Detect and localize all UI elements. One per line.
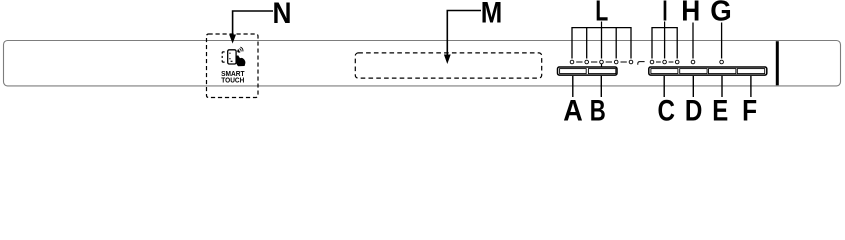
- arrowhead N: [229, 35, 236, 44]
- smart touch icon: screen marks: [229, 53, 230, 54]
- button bar C-F outer: [649, 67, 767, 75]
- connector circle3 to bar: [601, 64, 603, 67]
- LED circle H: [691, 60, 695, 64]
- pointer line C: [663, 76, 665, 97]
- dashed callout box N: [207, 34, 259, 98]
- LED circles group L: [570, 60, 574, 64]
- button F: [737, 69, 764, 74]
- svg-text:C: C: [658, 95, 676, 122]
- dashed callout box M: [355, 53, 541, 78]
- button A: [560, 69, 587, 74]
- G pointer: [721, 23, 723, 59]
- smart touch icon: hand: [236, 55, 245, 66]
- LED circles group I: [650, 60, 654, 64]
- panel divider bar (right end): [776, 41, 779, 85]
- smart touch icon: phone body: [228, 50, 236, 64]
- button D: [680, 69, 707, 74]
- button E: [709, 69, 736, 74]
- wire dashes between circles: [576, 61, 582, 63]
- svg-text:N: N: [273, 0, 292, 30]
- svg-text:B: B: [590, 95, 606, 122]
- svg-text:F: F: [742, 95, 757, 122]
- svg-text:TOUCH: TOUCH: [221, 75, 244, 84]
- leader line N: [233, 11, 273, 36]
- smart touch icon: dashed left outline: [222, 52, 224, 54]
- leader line M: [447, 11, 481, 56]
- pointer line A: [572, 76, 574, 97]
- pointer line D: [692, 76, 694, 97]
- LED circle G: [720, 60, 724, 64]
- L bracket: [572, 28, 631, 59]
- smart touch icon: speaker waves: [236, 47, 244, 54]
- I bracket tick: [664, 28, 666, 59]
- wire hook left of group I: [638, 62, 645, 65]
- svg-text:E: E: [712, 95, 728, 122]
- pointer line E: [721, 76, 723, 97]
- button bar A/B outer: [558, 67, 618, 75]
- pointer line B: [600, 76, 602, 97]
- arrowhead M: [444, 55, 451, 65]
- L stem: [601, 22, 603, 28]
- button C: [651, 69, 678, 74]
- svg-text:D: D: [685, 95, 703, 122]
- control panel outline: [4, 41, 841, 86]
- I bracket: [652, 28, 677, 59]
- I stem: [664, 22, 666, 28]
- svg-text:H: H: [681, 0, 700, 27]
- smart touch icon: home dot: [231, 61, 233, 62]
- L bracket ticks: [586, 28, 588, 59]
- wire dashes group I: [656, 61, 661, 63]
- button B: [588, 69, 615, 74]
- pointer line F: [750, 76, 752, 97]
- H pointer: [692, 23, 694, 59]
- svg-text:M: M: [481, 0, 503, 30]
- svg-text:A: A: [563, 95, 583, 122]
